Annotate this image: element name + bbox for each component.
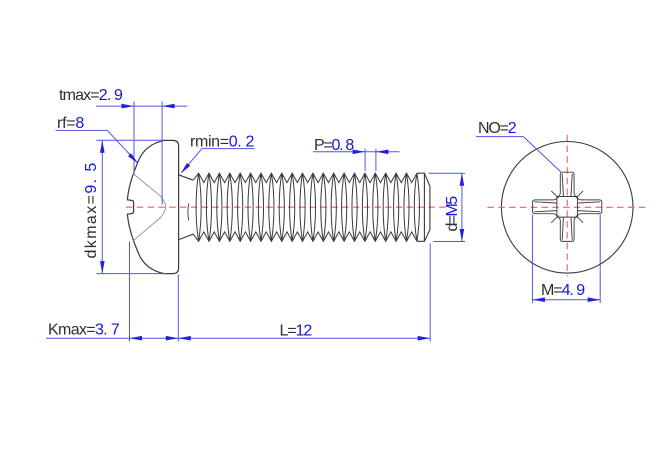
svg-text:NO=2: NO=2 bbox=[478, 120, 517, 137]
dimension dkmax=9.5 bbox=[96, 140, 166, 273]
svg-text:P=0. 8: P=0. 8 bbox=[314, 137, 354, 154]
thread runout bbox=[187, 204, 190, 221]
dimension rf=8 leader bbox=[56, 130, 139, 163]
svg-text:rf=8: rf=8 bbox=[57, 115, 84, 132]
svg-text:dkmax=9. 5: dkmax=9. 5 bbox=[83, 161, 100, 258]
thread flanks bbox=[196, 173, 419, 241]
svg-text:L=12: L=12 bbox=[280, 322, 313, 339]
centerlines end view bbox=[488, 135, 648, 277]
svg-text:M=4. 9: M=4. 9 bbox=[541, 282, 585, 299]
thread crest zigzag bottom bbox=[193, 232, 417, 241]
dimension P=0.8 bbox=[313, 149, 400, 171]
head outline bbox=[127, 140, 178, 273]
phillips cross arm bottom bbox=[560, 217, 574, 241]
phillips cross corner wings bbox=[551, 191, 583, 223]
fillet head to shank bbox=[179, 175, 194, 240]
phillips cross arm top bbox=[560, 172, 574, 196]
dimension rmin=0.2 leader bbox=[181, 149, 255, 174]
svg-text:d=M5: d=M5 bbox=[444, 196, 461, 232]
centerline side view bbox=[126, 206, 447, 208]
dimension M=4.9 bbox=[532, 215, 600, 304]
end view circle bbox=[501, 142, 633, 274]
phillips center square bbox=[557, 197, 578, 218]
svg-text:tmax=2. 9: tmax=2. 9 bbox=[59, 87, 123, 104]
phillips cross arm right bbox=[533, 172, 602, 241]
dimension tmax=2.9 bbox=[96, 102, 187, 205]
svg-text:Kmax=3. 7: Kmax=3. 7 bbox=[48, 322, 120, 339]
dimension L=12 bbox=[178, 244, 430, 342]
svg-text:rmin=0. 2: rmin=0. 2 bbox=[190, 133, 254, 150]
leader NO=2 bbox=[476, 137, 561, 173]
phillips cross arm left bbox=[533, 200, 557, 214]
screw end chamfer bbox=[417, 173, 430, 241]
thread crest zigzag top bbox=[193, 173, 417, 182]
dimension d=M5 bbox=[429, 173, 466, 241]
recess cone (side view internal) bbox=[133, 174, 166, 241]
dimension Kmax=3.7 bbox=[46, 242, 178, 342]
